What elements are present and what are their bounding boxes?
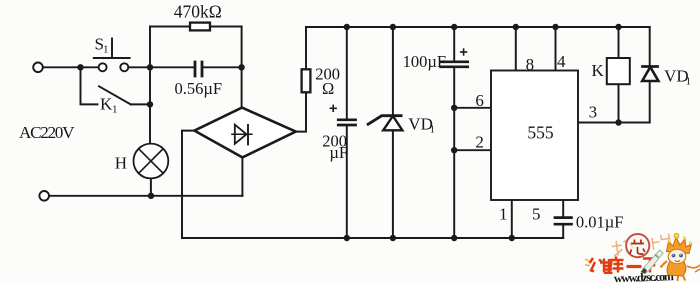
svg-text:1: 1 [103,44,109,56]
svg-text:0.56µF: 0.56µF [175,79,223,98]
svg-text:5: 5 [532,205,541,224]
svg-text:Ω: Ω [322,79,334,98]
svg-text:1: 1 [686,75,692,87]
svg-text:1: 1 [499,205,508,224]
svg-text:1: 1 [112,104,118,116]
svg-text:2: 2 [475,132,484,151]
svg-text:www.dzsc.com: www.dzsc.com [614,269,674,283]
svg-text:8: 8 [526,55,535,74]
svg-text:0.01µF: 0.01µF [576,213,624,232]
svg-text:6: 6 [475,91,484,110]
svg-text:470kΩ: 470kΩ [174,2,222,22]
svg-text:3: 3 [589,103,598,122]
svg-text:µF: µF [329,143,348,162]
svg-text:1: 1 [430,124,436,136]
svg-text:100µF: 100µF [403,52,446,71]
svg-text:K: K [592,61,605,80]
svg-text:4: 4 [557,52,566,71]
svg-text:555: 555 [527,123,554,143]
svg-text:H: H [115,154,127,173]
svg-text:AC220V: AC220V [19,123,75,142]
